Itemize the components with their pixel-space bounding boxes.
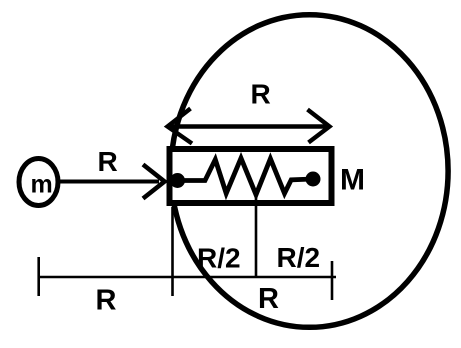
svg-text:R/2: R/2 [277,242,321,273]
dimension baseline [39,276,336,279]
svg-text:M: M [340,164,365,197]
mass m circle [19,159,58,206]
svg-text:R: R [251,79,271,110]
large circle (disc of radius R) [171,15,448,328]
arrow from m to block [60,180,159,184]
block M rectangle [170,149,332,203]
spring [178,158,314,195]
svg-text:R/2: R/2 [197,243,241,274]
spring right anchor dot [306,172,321,187]
middle tick (left edge of block) [171,207,174,296]
svg-text:R: R [96,285,117,317]
svg-text:R: R [258,283,279,315]
spring left anchor dot [170,173,185,188]
arrowhead [143,165,165,199]
svg-text:R: R [98,146,118,177]
left tick [37,257,40,296]
right tick [331,261,334,300]
double arrow R (diameter of block) [168,109,330,144]
svg-text:m: m [31,171,53,199]
center line from spring midpoint down [255,195,258,277]
